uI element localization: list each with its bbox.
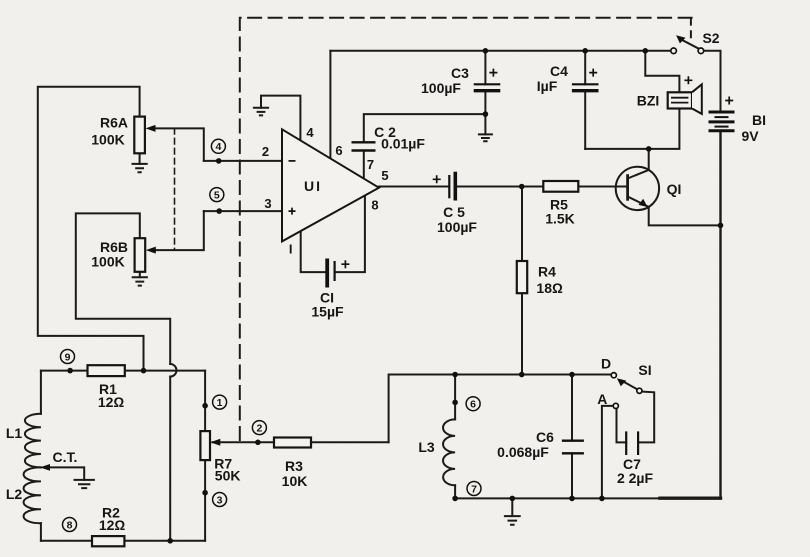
svg-text:I: I bbox=[289, 242, 293, 257]
svg-text:3: 3 bbox=[217, 494, 223, 506]
svg-text:12Ω: 12Ω bbox=[99, 517, 126, 533]
svg-text:18Ω: 18Ω bbox=[536, 280, 563, 296]
svg-text:R4: R4 bbox=[538, 264, 556, 280]
svg-text:C.T.: C.T. bbox=[53, 449, 78, 465]
svg-text:A: A bbox=[597, 391, 607, 407]
svg-text:C 5: C 5 bbox=[443, 204, 465, 220]
svg-text:D: D bbox=[601, 356, 611, 372]
svg-text:6: 6 bbox=[470, 399, 476, 411]
svg-text:6: 6 bbox=[335, 143, 342, 158]
svg-text:4: 4 bbox=[215, 141, 221, 153]
svg-text:2 2µF: 2 2µF bbox=[617, 470, 654, 486]
svg-text:SI: SI bbox=[638, 362, 651, 378]
svg-text:7: 7 bbox=[367, 157, 374, 172]
svg-text:9: 9 bbox=[65, 351, 71, 363]
svg-text:0.068µF: 0.068µF bbox=[497, 444, 549, 460]
svg-text:100µF: 100µF bbox=[421, 80, 461, 96]
svg-text:1: 1 bbox=[217, 397, 223, 409]
svg-text:BZI: BZI bbox=[637, 93, 660, 109]
svg-text:S2: S2 bbox=[702, 30, 719, 46]
svg-text:100µF: 100µF bbox=[437, 219, 477, 235]
svg-text:L3: L3 bbox=[418, 439, 435, 455]
svg-text:R6A: R6A bbox=[100, 115, 128, 131]
svg-text:8: 8 bbox=[371, 198, 378, 213]
svg-text:1.5K: 1.5K bbox=[545, 211, 575, 227]
svg-text:4: 4 bbox=[306, 125, 314, 140]
svg-text:C3: C3 bbox=[451, 65, 469, 81]
svg-text:L2: L2 bbox=[6, 486, 23, 502]
svg-text:50K: 50K bbox=[215, 468, 241, 484]
svg-text:QI: QI bbox=[667, 181, 682, 197]
svg-text:100K: 100K bbox=[91, 254, 124, 270]
svg-text:7: 7 bbox=[471, 483, 477, 495]
svg-text:BI: BI bbox=[752, 112, 766, 128]
svg-text:12Ω: 12Ω bbox=[98, 394, 125, 410]
svg-text:C6: C6 bbox=[536, 429, 554, 445]
svg-text:5: 5 bbox=[381, 168, 388, 183]
svg-text:2: 2 bbox=[262, 144, 269, 159]
svg-text:R3: R3 bbox=[285, 458, 303, 474]
svg-text:9V: 9V bbox=[741, 128, 759, 144]
svg-text:100K: 100K bbox=[91, 132, 124, 148]
svg-text:C4: C4 bbox=[550, 63, 568, 79]
svg-text:2: 2 bbox=[256, 422, 262, 434]
svg-text:IµF: IµF bbox=[537, 78, 558, 94]
svg-text:UI: UI bbox=[304, 178, 322, 194]
svg-text:8: 8 bbox=[67, 519, 73, 531]
svg-text:3: 3 bbox=[264, 196, 271, 211]
svg-text:5: 5 bbox=[214, 189, 220, 201]
svg-text:L1: L1 bbox=[6, 425, 23, 441]
svg-text:15µF: 15µF bbox=[311, 304, 344, 320]
svg-text:10K: 10K bbox=[282, 473, 308, 489]
svg-text:0.01µF: 0.01µF bbox=[381, 136, 425, 152]
